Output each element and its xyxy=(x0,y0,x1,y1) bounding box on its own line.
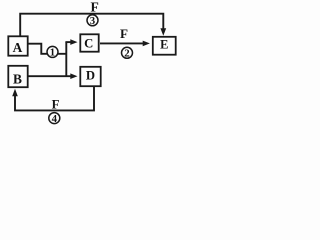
svg-text:F: F xyxy=(91,0,99,15)
svg-text:C: C xyxy=(84,37,93,51)
svg-text:B: B xyxy=(13,71,22,86)
svg-text:D: D xyxy=(86,69,95,83)
svg-text:4: 4 xyxy=(52,113,58,125)
wire B output toward D xyxy=(29,75,72,77)
box A xyxy=(8,36,27,55)
arrowhead right into E left xyxy=(143,41,150,47)
node circle 3 xyxy=(87,15,98,26)
wire C to E xyxy=(100,42,144,44)
node circle 2 xyxy=(122,47,133,58)
box C xyxy=(80,34,98,51)
svg-text:A: A xyxy=(13,40,23,55)
svg-text:1: 1 xyxy=(50,47,55,59)
node circle 4 xyxy=(49,113,60,124)
svg-text:F: F xyxy=(52,98,60,112)
svg-text:F: F xyxy=(120,26,128,41)
wire vertical junction bus xyxy=(65,42,67,76)
arrowhead up into B bottom xyxy=(12,89,18,97)
box D xyxy=(80,67,100,86)
box E xyxy=(153,37,176,55)
wire top feedback from A top to E top xyxy=(20,14,163,36)
svg-text:3: 3 xyxy=(90,15,96,27)
svg-text:E: E xyxy=(160,38,168,52)
arrowhead down into E top xyxy=(160,28,166,36)
svg-text:2: 2 xyxy=(124,48,129,60)
wire A output step to junction xyxy=(29,44,67,54)
node circle 1 xyxy=(47,46,58,57)
arrowhead right into C left xyxy=(70,39,77,45)
wire bottom feedback D to B xyxy=(15,87,94,110)
wire branch toward C xyxy=(65,41,71,43)
box B xyxy=(8,66,27,87)
arrowhead right into D left xyxy=(70,73,77,79)
